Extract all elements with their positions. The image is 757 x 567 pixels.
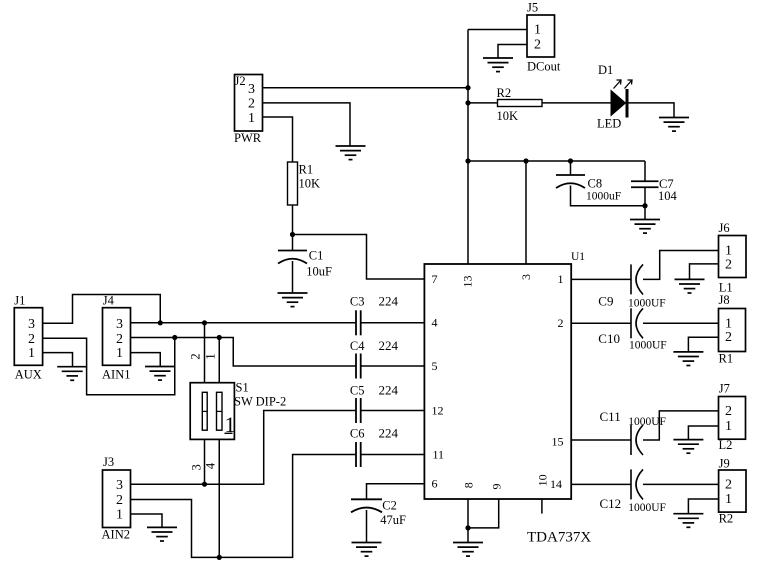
junction C7 bottom <box>642 203 647 208</box>
wire C9 to J6 pin1 <box>643 251 719 280</box>
svg-text:2: 2 <box>725 257 732 272</box>
svg-text:AIN1: AIN1 <box>102 368 130 382</box>
capacitor C1 <box>278 251 307 264</box>
svg-text:14: 14 <box>550 477 562 491</box>
svg-text:2: 2 <box>189 353 203 359</box>
wire J4 pin1 to ground <box>131 353 161 367</box>
svg-text:2: 2 <box>116 493 123 508</box>
svg-text:2: 2 <box>28 332 35 347</box>
wire C2 to ground <box>366 510 368 543</box>
junction x468 caprow <box>465 158 470 163</box>
svg-text:10: 10 <box>536 474 550 486</box>
wire pin8 to ground <box>467 528 469 543</box>
wire caprow to C7 <box>644 161 646 181</box>
capacitor C3 <box>356 310 361 335</box>
svg-text:SW DIP-2: SW DIP-2 <box>234 395 286 409</box>
wire J7 pin1 to ground <box>688 426 718 440</box>
svg-text:LED: LED <box>597 117 621 131</box>
svg-text:R1: R1 <box>299 163 314 177</box>
wire S1 pin2 up <box>204 323 206 383</box>
ground J8 <box>673 352 703 366</box>
svg-text:1: 1 <box>248 111 255 126</box>
svg-text:C5: C5 <box>350 384 365 398</box>
IC U1 TDA737X <box>424 251 591 546</box>
svg-text:1: 1 <box>204 353 218 359</box>
svg-text:J1: J1 <box>14 293 25 307</box>
wire J9 pin1 to ground <box>688 499 718 514</box>
junction S1 pin4 row <box>217 555 222 560</box>
svg-text:1: 1 <box>116 508 123 523</box>
svg-text:1: 1 <box>116 346 123 361</box>
svg-text:6: 6 <box>432 477 438 491</box>
svg-text:C9: C9 <box>598 294 613 309</box>
svg-text:J7: J7 <box>719 382 730 396</box>
svg-text:224: 224 <box>379 338 399 353</box>
svg-text:2: 2 <box>725 477 732 492</box>
wire J5 pin1 to node <box>468 29 527 31</box>
svg-text:2: 2 <box>116 332 123 347</box>
svg-text:U1: U1 <box>571 251 585 263</box>
wire caprow to C8 <box>570 161 572 175</box>
svg-text:R2: R2 <box>497 86 512 100</box>
wire IC pin6 to C2 <box>367 484 425 500</box>
wire R1 to junction <box>292 205 294 251</box>
svg-text:1: 1 <box>725 492 732 507</box>
svg-text:3: 3 <box>248 82 255 97</box>
capacitor C11 <box>631 425 643 455</box>
wire C1 to ground <box>292 261 294 293</box>
wire J1 pin2 detour <box>43 338 175 395</box>
wire J5 pin2 to ground <box>498 45 527 59</box>
connector J7 <box>719 382 746 452</box>
connector J4 <box>102 293 131 381</box>
wire J1 pin1 to ground <box>43 353 73 367</box>
junction C8 caprow <box>568 158 573 163</box>
wire J2 pin2 to ground <box>263 103 351 146</box>
svg-text:224: 224 <box>379 293 399 308</box>
svg-text:15: 15 <box>552 435 564 449</box>
wire J4 pin2 row <box>131 338 356 367</box>
junction x468 R2row <box>465 100 470 105</box>
wire IC pin8 stub <box>467 499 469 528</box>
capacitor C2 <box>351 499 382 512</box>
svg-text:7: 7 <box>432 272 438 286</box>
capacitor C10 <box>631 308 643 338</box>
wire IC pin10 stub <box>541 499 543 514</box>
junction J1J4 pin2 <box>172 335 177 340</box>
junction S1 pin1 row <box>217 335 222 340</box>
capacitor C5 <box>356 398 361 423</box>
svg-text:47uF: 47uF <box>380 513 406 527</box>
svg-text:2: 2 <box>248 97 255 112</box>
junction S1 pin3 row <box>202 482 207 487</box>
svg-text:13: 13 <box>461 276 475 288</box>
svg-text:D1: D1 <box>598 63 613 77</box>
capacitor C9 <box>631 264 643 294</box>
wire D1 to ground <box>629 103 675 118</box>
connector J5 <box>527 1 561 74</box>
svg-text:C8: C8 <box>588 177 603 191</box>
svg-text:PWR: PWR <box>234 131 262 145</box>
svg-text:2: 2 <box>534 37 541 52</box>
resistor R1 <box>288 162 298 205</box>
svg-text:3: 3 <box>28 317 35 332</box>
svg-text:C10: C10 <box>598 331 620 346</box>
svg-text:10K: 10K <box>497 109 519 123</box>
svg-text:1000uF: 1000uF <box>586 191 621 203</box>
wire C4 to IC pin5 <box>361 365 425 367</box>
wire C6 to IC pin11 <box>361 454 425 456</box>
svg-text:4: 4 <box>204 462 218 469</box>
svg-text:10K: 10K <box>299 177 321 191</box>
svg-text:C1: C1 <box>309 249 324 263</box>
wire J3 pin1 to ground <box>131 514 163 527</box>
ground J4 <box>145 367 175 381</box>
wire node to R2 <box>468 102 498 104</box>
wire J3 pin3 row to C5 <box>131 411 356 485</box>
svg-text:4: 4 <box>432 316 438 330</box>
svg-text:1: 1 <box>558 272 564 286</box>
connector J3 <box>102 455 131 542</box>
svg-text:1000UF: 1000UF <box>628 298 666 310</box>
wire J6 pin2 to ground <box>690 264 719 280</box>
wire S1 pin4 down <box>218 439 220 557</box>
wire node x468 vertical <box>467 30 469 265</box>
svg-text:1000UF: 1000UF <box>628 416 666 428</box>
wire vcc cap row <box>468 160 645 162</box>
junction R1 C1 node <box>290 232 295 237</box>
svg-text:S1: S1 <box>236 381 249 395</box>
svg-text:1000UF: 1000UF <box>628 502 666 514</box>
connector J1 <box>14 293 42 381</box>
svg-text:2: 2 <box>558 316 564 330</box>
svg-text:C4: C4 <box>350 339 365 353</box>
svg-text:J6: J6 <box>719 221 730 235</box>
svg-text:C12: C12 <box>600 496 622 511</box>
svg-text:R1: R1 <box>719 352 734 366</box>
connector J8 <box>719 293 746 366</box>
svg-text:12: 12 <box>432 403 444 417</box>
junction J1J4 pin3 <box>158 320 163 325</box>
wire S1 pin3 down <box>204 439 206 484</box>
svg-text:J9: J9 <box>719 457 730 471</box>
svg-text:1: 1 <box>725 419 732 434</box>
ground C2 <box>352 543 382 557</box>
wire IC pin2 to C10 <box>571 322 631 324</box>
wire IC pin14 to C12 <box>571 483 631 485</box>
junction pin8 pin9 <box>465 525 470 530</box>
wire IC pin15 to C11 <box>571 439 631 441</box>
svg-text:1000UF: 1000UF <box>629 340 667 352</box>
svg-text:9: 9 <box>490 484 504 490</box>
wire IC pin1 to C9 <box>571 278 631 280</box>
svg-text:1: 1 <box>28 346 35 361</box>
svg-text:8: 8 <box>462 482 476 488</box>
wire J4 pin3 row to C3 <box>131 322 356 324</box>
svg-text:5: 5 <box>432 359 438 373</box>
svg-text:1: 1 <box>725 316 732 331</box>
svg-text:J4: J4 <box>103 293 115 307</box>
svg-text:3: 3 <box>116 478 123 493</box>
capacitor C12 <box>631 469 643 499</box>
svg-text:104: 104 <box>658 189 678 203</box>
switch S1 pin labels <box>189 353 218 470</box>
wire IC pin3 vertical <box>525 161 527 264</box>
ground J1 <box>57 367 87 381</box>
svg-text:3: 3 <box>116 317 123 332</box>
wire C7 to ground <box>644 187 646 219</box>
svg-text:224: 224 <box>379 383 399 398</box>
svg-text:11: 11 <box>433 447 445 461</box>
ground IC pins 8 9 <box>453 543 483 557</box>
wire IC pin9 stub <box>468 499 499 528</box>
wire junction to IC pin7 <box>293 235 425 280</box>
capacitor C8 <box>556 175 585 188</box>
wire C5 to IC pin12 <box>361 410 425 412</box>
svg-text:J3: J3 <box>103 455 114 469</box>
wire J8 pin2 to ground <box>688 337 718 352</box>
wire C3 to IC pin4 <box>361 322 425 324</box>
capacitor C6 <box>356 442 361 467</box>
junction pin3wire caprow <box>523 158 528 163</box>
junction x468 pin3row <box>465 85 470 90</box>
svg-text:AUX: AUX <box>15 368 42 382</box>
connector J9 <box>719 457 746 526</box>
wire C12 to J9 pin2 <box>643 483 719 485</box>
svg-text:C11: C11 <box>600 409 621 424</box>
connector J2 <box>234 74 263 145</box>
svg-text:J8: J8 <box>719 293 730 307</box>
ground J3 <box>147 527 177 541</box>
svg-text:224: 224 <box>379 426 399 441</box>
ground J6 <box>675 279 705 293</box>
ground C1 <box>278 293 308 307</box>
diode D1 LED <box>597 63 632 131</box>
svg-text:3: 3 <box>190 464 204 470</box>
svg-text:DCout: DCout <box>527 60 561 74</box>
svg-text:1: 1 <box>534 23 541 38</box>
ground J9 <box>673 514 703 528</box>
wire J3 pin2 row to C6 <box>131 455 356 558</box>
svg-text:C2: C2 <box>382 499 397 513</box>
ground C7 <box>630 220 660 234</box>
wire S1 pin1 up <box>218 338 220 383</box>
svg-text:1: 1 <box>725 244 732 259</box>
ground J7 <box>673 440 703 454</box>
ground J5 <box>483 58 513 72</box>
svg-text:J2: J2 <box>235 74 246 88</box>
svg-text:L2: L2 <box>719 438 733 452</box>
svg-text:R2: R2 <box>719 512 734 526</box>
junction S1 pin2 row <box>202 320 207 325</box>
IC U1 pin numbers <box>432 272 564 491</box>
svg-text:TDA737X: TDA737X <box>527 530 591 546</box>
svg-text:10uF: 10uF <box>306 265 332 279</box>
connector J6 <box>719 221 747 295</box>
wire J1 pin3 to row <box>43 295 161 324</box>
capacitor C4 <box>356 354 361 379</box>
capacitor C7 <box>631 181 659 187</box>
wire J2 pin3 row <box>263 87 469 89</box>
svg-text:2: 2 <box>725 404 732 419</box>
svg-text:3: 3 <box>519 274 533 280</box>
wire R2 to D1 <box>542 102 611 104</box>
wire C8 bottom row <box>571 186 646 206</box>
svg-text:AIN2: AIN2 <box>102 528 130 542</box>
svg-text:C3: C3 <box>350 294 365 308</box>
svg-text:J5: J5 <box>527 1 538 15</box>
wire C10 to J8 pin1 <box>643 322 719 324</box>
wire J2 pin1 to R1 <box>263 117 293 162</box>
resistor R2 <box>498 100 543 107</box>
wire C11 to J7 pin2 <box>643 411 719 440</box>
ground D1 <box>659 118 689 132</box>
svg-text:C6: C6 <box>350 427 365 441</box>
svg-text:2: 2 <box>725 330 732 345</box>
ground J2 <box>336 146 366 160</box>
switch S1 SW DIP-2 <box>190 381 286 440</box>
